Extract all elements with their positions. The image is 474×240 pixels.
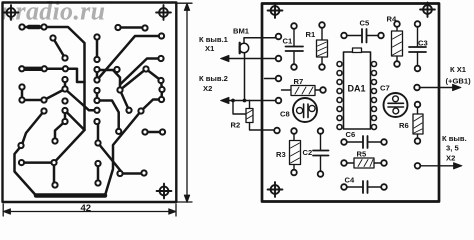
svg-text:3, 5: 3, 5 [446, 144, 459, 153]
wire B2-C2 [96, 37, 99, 60]
wire C3 branch [120, 59, 161, 91]
wire hub diag [120, 69, 146, 90]
wire diag to pad [98, 143, 122, 173]
svg-text:C7: C7 [380, 84, 390, 93]
wire col1 link [64, 80, 67, 90]
fiducial right board top-right [420, 2, 435, 17]
wire left elbow [22, 87, 65, 100]
wire col2 mid [96, 91, 99, 101]
wire col2 elbow down [97, 101, 119, 132]
svg-text:C4: C4 [345, 176, 355, 185]
wire long vertical net [44, 27, 85, 163]
svg-text:C5: C5 [360, 19, 370, 28]
svg-text:DA1: DA1 [348, 84, 366, 94]
wire col2 top link [97, 70, 120, 85]
svg-text:C2: C2 [303, 148, 313, 157]
wire vertical pair [53, 163, 56, 185]
wire diag join [65, 111, 85, 131]
wire bottom row [21, 69, 85, 82]
wire bottom horizontal pair [22, 161, 55, 164]
wire right arc a [141, 100, 162, 112]
IC DA1 pins [337, 62, 377, 130]
wire diagonal B1-C1 [53, 38, 65, 58]
svg-text:К X1: К X1 [450, 65, 467, 74]
junction dots [243, 99, 247, 103]
wire diag to col2 [65, 89, 94, 110]
svg-text:(+GB1): (+GB1) [446, 77, 472, 86]
dimension vertical line [176, 3, 192, 203]
svg-text:BM1: BM1 [233, 27, 250, 36]
svg-text:К выв.1: К выв.1 [199, 35, 229, 44]
wire trace A1-A2 [22, 26, 44, 29]
wire to X2 with arrow [221, 97, 277, 103]
wire pair horizontal [120, 172, 144, 175]
pads left PCB [18, 24, 165, 187]
IC DA1 [344, 48, 371, 129]
svg-text:R2: R2 [231, 121, 241, 130]
wire thick bottom [36, 193, 105, 198]
fiducial right board top-left [268, 3, 283, 18]
svg-text:К выв.: К выв. [442, 134, 467, 143]
wire hub branch [120, 90, 129, 110]
svg-text:R1: R1 [306, 30, 316, 39]
svg-text:C8: C8 [280, 110, 290, 119]
right board outline [262, 4, 439, 202]
svg-text:C1: C1 [283, 37, 293, 46]
wire col1 lower link [64, 111, 67, 122]
svg-text:X2: X2 [446, 154, 455, 163]
svg-text:R5: R5 [357, 150, 367, 159]
svg-text:R7: R7 [294, 77, 304, 86]
wire row horizontal [145, 131, 163, 134]
fiducial top-right [156, 5, 171, 20]
wire thick segment [25, 67, 42, 71]
svg-text:X2: X2 [203, 84, 212, 93]
wire big ground trace [15, 111, 142, 196]
svg-text:X1: X1 [205, 44, 215, 53]
fiducial bottom-right [157, 184, 172, 199]
board edge pads left column [265, 78, 277, 80]
wire A3-A4 [118, 26, 145, 29]
fiducial right board bottom-left [268, 182, 283, 197]
svg-text:42: 42 [81, 203, 92, 214]
wire col2 stub [96, 70, 99, 81]
wire vertical pair [97, 164, 100, 184]
wire IC pad to via [55, 122, 65, 142]
svg-text:R3: R3 [276, 150, 286, 159]
wire diag to arc pads [146, 69, 162, 100]
svg-text:C6: C6 [346, 130, 356, 139]
left PCB board outline [3, 3, 177, 203]
svg-text:К выв.2: К выв.2 [199, 74, 228, 83]
svg-text:R6: R6 [399, 121, 409, 130]
wire thick segment [29, 25, 39, 30]
dimension 42 [3, 203, 176, 216]
pads right column [414, 85, 420, 91]
fiducial top-left [4, 5, 19, 20]
wire diagonal to B3 [97, 36, 161, 80]
wire to X1 with arrow [221, 55, 277, 61]
wire col2 link [97, 122, 100, 144]
